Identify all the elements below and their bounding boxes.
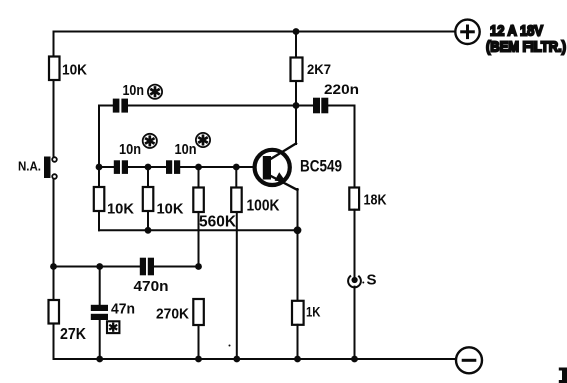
svg-text:12 A 18V: 12 A 18V	[490, 23, 543, 40]
wire node A vertical (feedback row to phase row)	[98, 106, 100, 168]
terminal + supply	[455, 20, 479, 44]
wire bottom ground rail	[54, 358, 456, 360]
terminal - negative	[456, 347, 482, 373]
svg-text:10n: 10n	[119, 142, 141, 158]
wire R7 bottom lead down to 470n node	[198, 212, 200, 267]
wire 1K bottom lead	[297, 325, 299, 359]
speck	[229, 345, 231, 347]
svg-text:10K: 10K	[62, 62, 87, 79]
node junction dot left / 470n row	[50, 263, 57, 270]
wire 47n top lead	[99, 267, 101, 306]
wire R5 bottom lead	[98, 211, 100, 230]
wire 18K bottom lead to switch S	[354, 210, 356, 279]
svg-text:S: S	[367, 272, 377, 289]
resistor R4 18K	[349, 188, 387, 210]
node junction dot A	[96, 164, 103, 171]
wire top supply rail	[54, 31, 456, 33]
svg-text:10n: 10n	[123, 83, 145, 99]
wire 470n right segment	[154, 266, 199, 268]
svg-text:560K: 560K	[199, 214, 237, 231]
resistor R8 100K	[231, 188, 280, 215]
wire R5 top lead	[98, 167, 100, 187]
node junction dot D	[233, 164, 240, 171]
resistor R2 27K	[49, 300, 87, 343]
resistor R6 10K	[143, 187, 184, 218]
svg-text:47n: 47n	[111, 302, 135, 318]
svg-text:10K: 10K	[107, 201, 134, 218]
wire 270K bottom lead	[198, 325, 200, 359]
symbol asterisk-in-circle (C1)	[148, 85, 162, 99]
wire 47n bottom lead	[99, 320, 101, 359]
svg-text:270K: 270K	[156, 307, 189, 323]
wire emitter vertical	[297, 189, 299, 230]
svg-text:18K: 18K	[364, 193, 387, 209]
wire left vertical top (rail to R1)	[53, 32, 55, 57]
wire 2K7 bottom lead	[295, 81, 297, 106]
wire R6 top lead	[147, 167, 149, 187]
wire left vertical (R1 to switch)	[53, 80, 55, 156]
node junction dot collector node	[293, 102, 300, 109]
node junction dot rail/emitter	[294, 226, 302, 234]
resistor R10 270K	[156, 299, 204, 325]
svg-text:N.A.: N.A.	[18, 159, 41, 174]
svg-text:220n: 220n	[324, 82, 359, 97]
wire phase row (node A to base)	[99, 166, 114, 168]
capacitor C4 10n (phase 2)	[166, 142, 197, 174]
capacitor C3 10n (phase 1)	[114, 142, 141, 174]
node junction dot 270K/ground	[195, 356, 202, 363]
switch S2 S (jack contact)	[348, 272, 376, 289]
symbol asterisk-in-box (C6)	[107, 321, 119, 333]
node junction dot rail/R6	[145, 227, 152, 234]
resistor R3 2K7	[291, 58, 332, 82]
wire R6 bottom lead	[147, 211, 149, 230]
resistor R5 10K	[94, 187, 134, 218]
node junction dot 47n tap	[96, 263, 103, 270]
node junction dot R8/ground	[233, 356, 240, 363]
capacitor C5 470n	[134, 258, 169, 295]
svg-text:100K: 100K	[247, 198, 280, 215]
node junction dot B	[145, 164, 152, 171]
node junction dot top rail / 2K7	[293, 28, 300, 35]
node junction dot 470n/R7	[195, 263, 202, 270]
wire switch S to ground rail	[354, 287, 356, 359]
wire feedback row (node A to collector node)	[99, 105, 113, 107]
wire 2K7 top lead	[295, 32, 297, 58]
node junction dot 1K/ground	[294, 356, 301, 363]
resistor R1 10K (top-left)	[49, 57, 87, 81]
wire R8 bottom lead down to ground rail	[236, 212, 238, 359]
switch S1 N.A. push-button	[18, 157, 57, 179]
svg-text:470n: 470n	[134, 278, 169, 295]
wire left vertical (node to 27K)	[53, 267, 55, 301]
capacitor C6 47n	[91, 302, 135, 321]
wire 470n row left segment	[54, 266, 141, 268]
svg-text:10n: 10n	[175, 142, 197, 158]
node junction dot 47n/ground	[96, 356, 103, 363]
transistor Q1 BC549	[255, 144, 342, 191]
wire left vertical (27K to ground rail)	[53, 324, 55, 360]
svg-text:(BEM FILTR.): (BEM FILTR.)	[486, 39, 566, 56]
wire R8 top lead	[235, 167, 237, 188]
svg-text:2K7: 2K7	[307, 61, 331, 77]
capacitor C2 220n	[313, 82, 359, 113]
resistor R9 1K	[292, 301, 321, 325]
symbol asterisk-in-circle (C4)	[196, 133, 210, 147]
wire emitter node to 1K	[297, 230, 299, 300]
wire collector vertical	[295, 106, 297, 145]
capacitor C1 10n (feedback)	[113, 83, 144, 113]
svg-text:27K: 27K	[60, 326, 87, 343]
wire left vertical (switch to lower node)	[53, 179, 55, 267]
symbol asterisk-in-circle (C3)	[143, 134, 157, 148]
node junction dot S/ground	[351, 356, 358, 363]
wire 220n left lead	[296, 105, 313, 107]
resistor R7 560K	[193, 188, 236, 231]
svg-text:1K: 1K	[306, 304, 321, 320]
caption fragment bottom-right	[559, 368, 567, 383]
wire R7 top lead	[198, 167, 200, 188]
wire emitter return rail	[99, 229, 298, 231]
wire 220n right lead to corner and down to 18K	[329, 106, 355, 188]
svg-text:BC549: BC549	[300, 157, 342, 176]
node junction dot C	[195, 164, 202, 171]
svg-text:10K: 10K	[157, 201, 184, 218]
